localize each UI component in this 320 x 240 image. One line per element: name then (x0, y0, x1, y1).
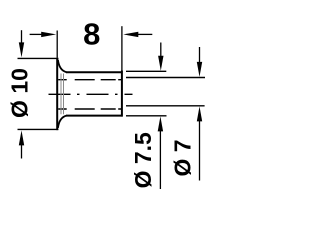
flange bottom edge / dim ext line (18, 128, 59, 130)
thread relief vertical line 2 (63, 74, 65, 115)
ext line above head (dim 8 left) (56, 31, 58, 58)
ext line above end face (dim 8 right) (121, 26, 123, 70)
Ø7.5 ext line top (126, 70, 166, 72)
dim 8 line left arrow (30, 33, 43, 35)
fillet top (58, 60, 67, 72)
dim Ø7.5 bottom arrow (159, 130, 161, 189)
centerline (49, 93, 133, 95)
svg-text:Ø 10: Ø 10 (7, 68, 33, 118)
body bottom outline (66, 115, 123, 117)
dim Ø7 top arrow (199, 47, 201, 63)
head left face (56, 58, 58, 130)
Ø7 ext line bottom (126, 105, 205, 107)
hidden bore line bottom (58, 108, 121, 110)
dim Ø7.5 top arrow (160, 43, 162, 58)
body end face (121, 71, 123, 117)
svg-text:8: 8 (83, 17, 100, 52)
hidden bore line top (58, 79, 121, 81)
Ø7.5 ext line bottom (126, 115, 167, 117)
Ø7 ext line top (126, 77, 205, 79)
flange top edge / dim ext line (18, 57, 59, 59)
body top outline (66, 71, 123, 73)
dim Ø7 bottom arrow (199, 120, 201, 181)
thread relief vertical line 1 (60, 74, 62, 115)
svg-text:Ø 7: Ø 7 (170, 139, 196, 176)
dim 8 line right arrow (137, 33, 152, 35)
dim Ø10 bottom arrow (21, 144, 23, 159)
svg-text:Ø 7.5: Ø 7.5 (130, 132, 156, 188)
dim Ø10 top arrow (21, 30, 23, 44)
fillet bottom (58, 116, 67, 128)
